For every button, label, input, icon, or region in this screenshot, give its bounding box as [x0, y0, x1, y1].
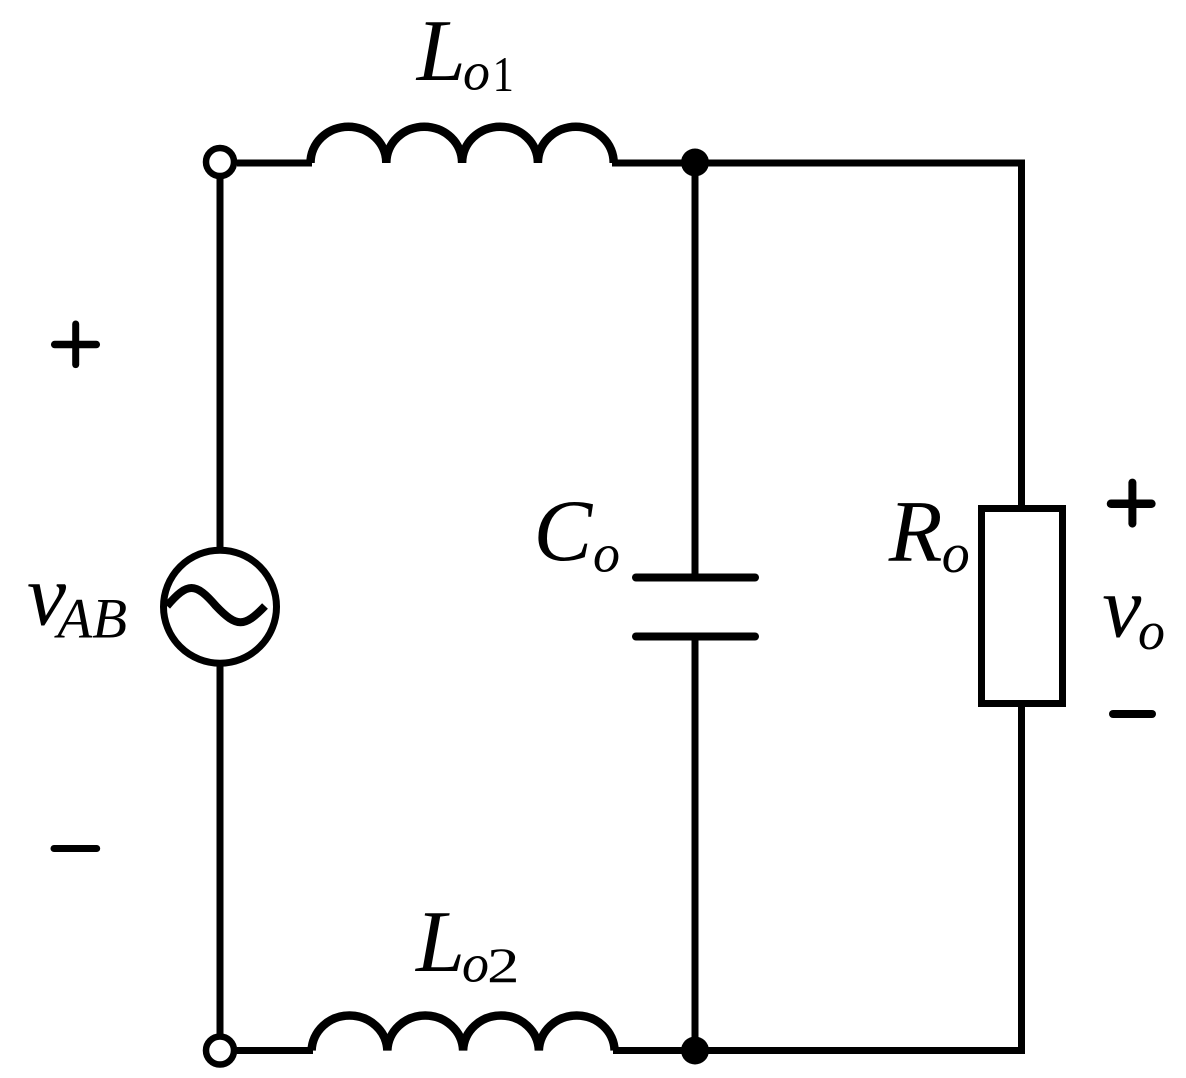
svg-text:o: o — [593, 524, 620, 584]
svg-text:1: 1 — [493, 48, 514, 103]
svg-text:o: o — [462, 934, 489, 994]
svg-text:v: v — [1102, 559, 1142, 656]
svg-text:o: o — [463, 42, 490, 102]
svg-text:C: C — [534, 483, 594, 580]
svg-text:o: o — [942, 523, 970, 585]
svg-text:L: L — [414, 894, 465, 991]
svg-text:R: R — [888, 484, 943, 581]
svg-text:L: L — [415, 3, 466, 100]
svg-text:o: o — [1138, 601, 1165, 661]
svg-text:AB: AB — [53, 588, 127, 651]
svg-text:2: 2 — [487, 937, 519, 993]
